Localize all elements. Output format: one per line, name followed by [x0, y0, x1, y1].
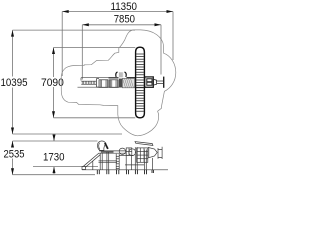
horizontal play structure (plan view) — [78, 78, 154, 88]
svg-text:7090: 7090 — [41, 77, 64, 89]
right bracket — [158, 150, 162, 158]
ground line — [82, 169, 168, 171]
dim 11350 line — [62, 11, 173, 13]
dim 7850 line — [82, 24, 161, 26]
pointed piece — [148, 147, 157, 158]
big grid / net — [137, 148, 148, 162]
svg-text:2535: 2535 — [4, 149, 25, 161]
svg-text:1730: 1730 — [43, 151, 65, 163]
curved hood with slide top — [97, 141, 105, 150]
bridge rungs — [82, 81, 95, 84]
roof panel — [135, 142, 153, 146]
entry gate hooks above deck — [116, 72, 126, 77]
svg-text:11350: 11350 — [111, 1, 138, 13]
svg-text:10395: 10395 — [1, 77, 28, 89]
arrows dim 10395 — [11, 30, 14, 36]
arrows dim 7090 — [52, 48, 55, 55]
right box with double squares — [145, 77, 154, 87]
connector and end cap — [153, 77, 163, 88]
posts — [99, 153, 101, 170]
safety zone blob outline — [61, 30, 176, 136]
arrows dim 11350 — [62, 10, 68, 13]
dim 1730 line — [53, 136, 55, 142]
svg-text:7850: 7850 — [114, 14, 135, 26]
dim 7090 line — [53, 48, 55, 78]
circle 1 — [119, 148, 125, 154]
grid box small — [126, 148, 132, 155]
bridge end bracket — [97, 79, 100, 88]
platform box A — [99, 80, 108, 88]
deck rails — [99, 150, 126, 152]
dim 10395 line — [12, 30, 14, 76]
hatched platform before ladder — [119, 79, 122, 88]
arrows dim 1730 — [53, 135, 56, 142]
circle 2 — [129, 149, 136, 156]
dim 2535 line — [12, 141, 14, 148]
platform box B — [109, 80, 118, 88]
access ladder rungs — [116, 155, 119, 157]
foundation feet — [97, 170, 153, 174]
arrows dim 2535 — [11, 141, 14, 148]
arrows dim 7850 — [82, 23, 89, 26]
vertical ladder (slide from top) — [136, 47, 145, 118]
slide diagonals — [84, 153, 100, 166]
